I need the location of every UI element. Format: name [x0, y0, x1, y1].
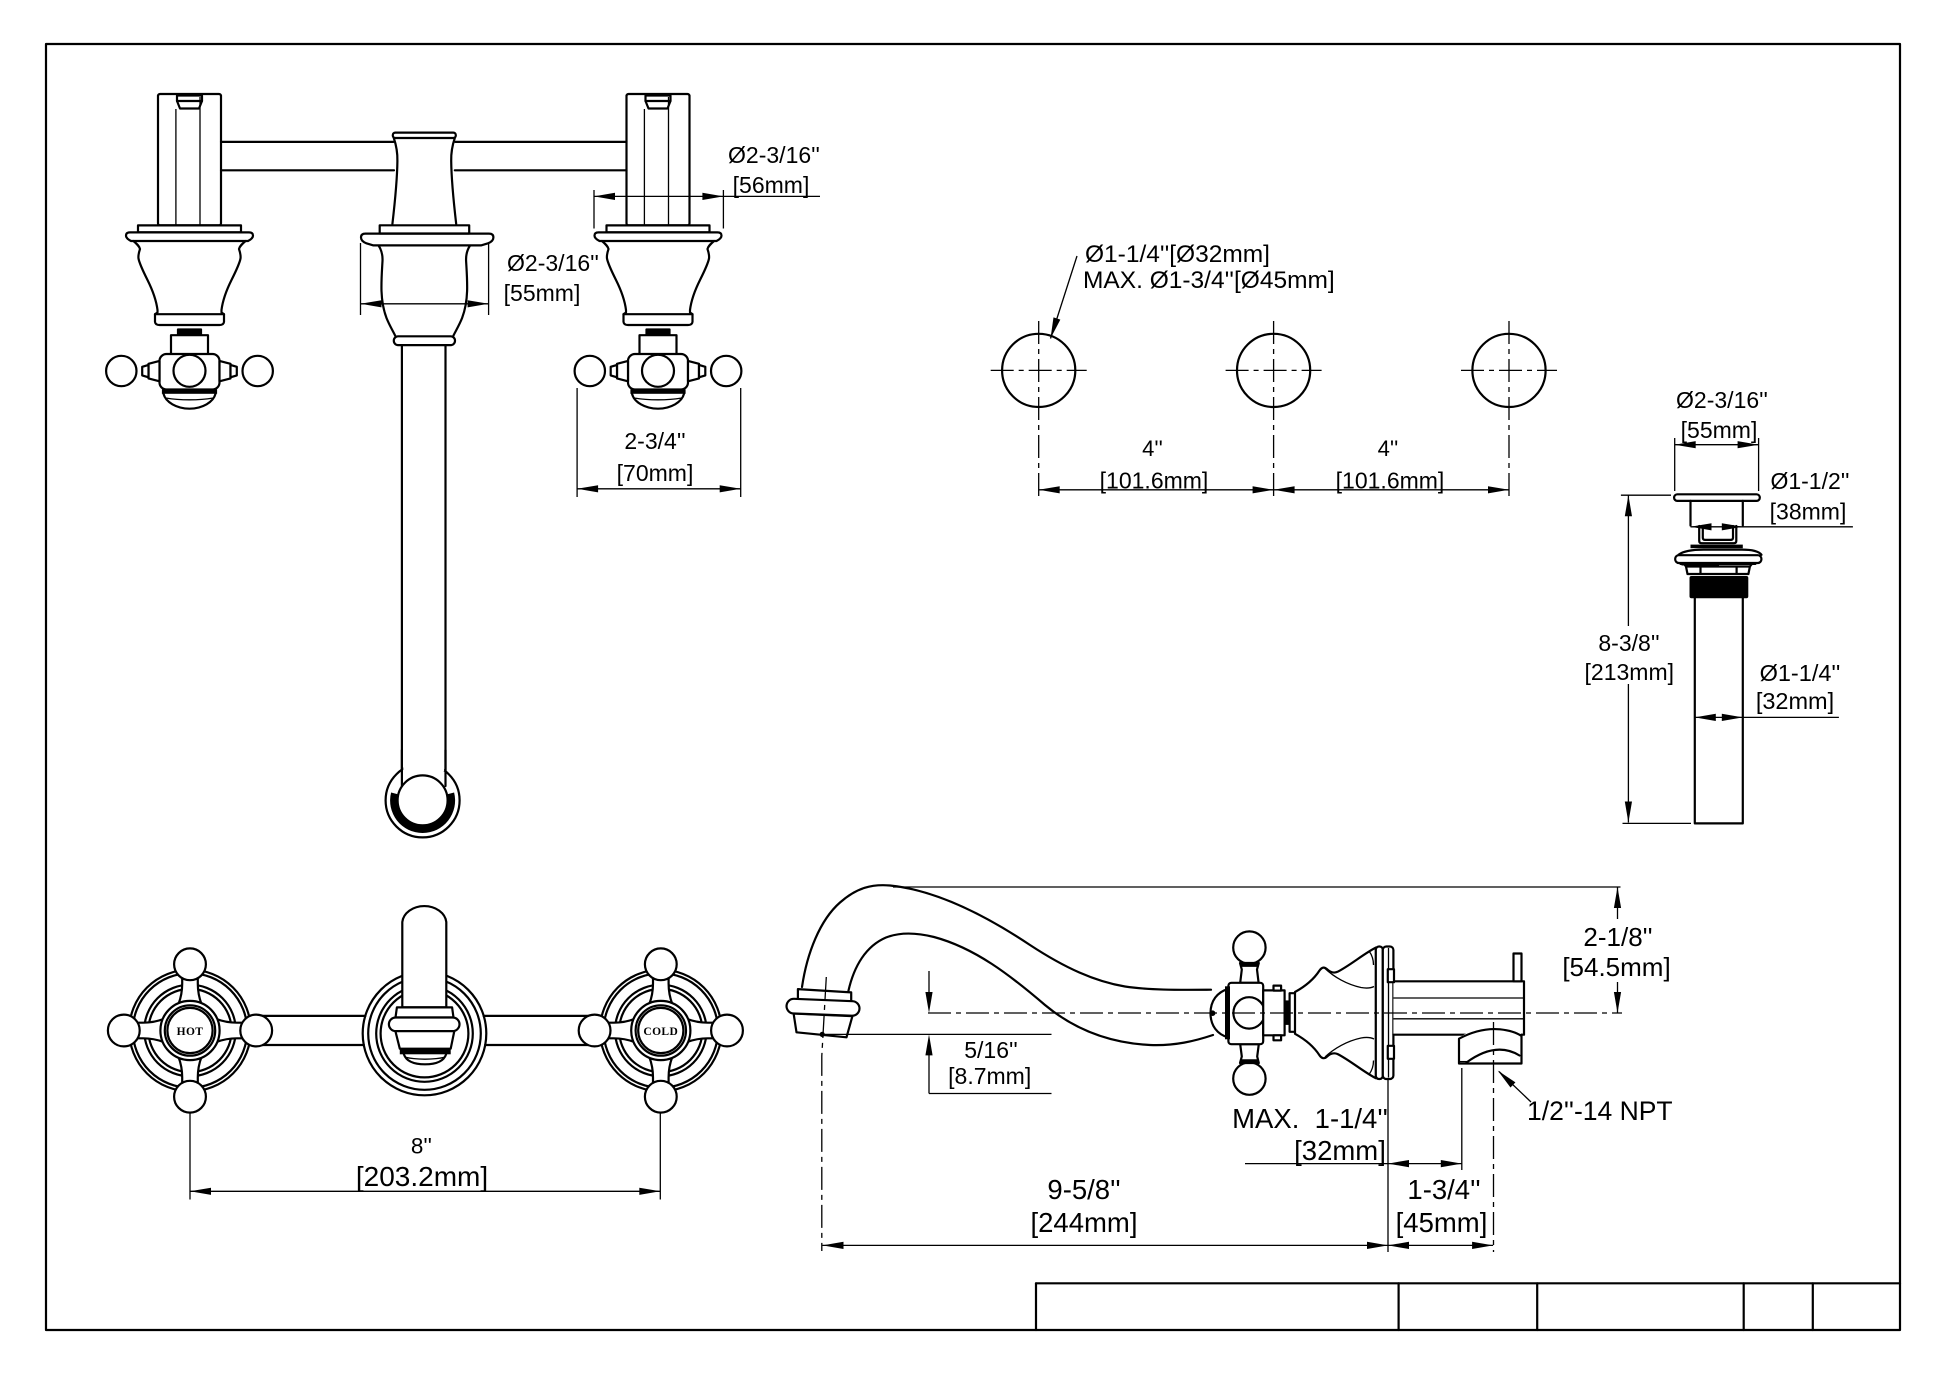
cold valve (top view) handle hub: [628, 354, 688, 390]
hot valve (top view) handle skirt band: [162, 390, 217, 394]
hot handle (front view) handle right ball: [240, 1015, 272, 1047]
svg-text:[55mm]: [55mm]: [504, 280, 581, 306]
hole diameter leader: [1051, 256, 1078, 339]
cold valve (top view) handle skirt dome: [632, 394, 684, 409]
side nipple: [1393, 981, 1524, 1034]
side handle hub dome: [1211, 989, 1229, 1038]
svg-text:Ø2-3/16'': Ø2-3/16'': [1676, 387, 1768, 413]
hot valve (top view) handle left arm: [149, 361, 160, 381]
hot valve (top view) packing nut: [177, 328, 202, 335]
drain neck: [1691, 501, 1743, 526]
svg-text:2-1/8'': 2-1/8'': [1583, 922, 1652, 952]
mounting hole 3: [1472, 334, 1545, 407]
spout column body: [392, 138, 456, 224]
side wall plate: [1383, 947, 1394, 1080]
cold valve (top view) handle left arm: [617, 361, 628, 381]
side bonnet bell: [1295, 948, 1376, 1079]
spout escutcheon flange: [361, 234, 493, 246]
hot valve (top view) handle left ball: [106, 356, 136, 386]
hot handle (front view) handle bottom spoke: [179, 1057, 202, 1084]
side bonnet collar: [1290, 993, 1296, 1032]
side drop ell: [1459, 1028, 1522, 1063]
svg-text:[55mm]: [55mm]: [1681, 417, 1758, 443]
svg-text:4'': 4'': [1142, 436, 1163, 461]
drain thread section: [1690, 576, 1749, 598]
svg-text:[32mm]: [32mm]: [1756, 688, 1834, 714]
hot valve (top view) handle right ball: [243, 356, 273, 386]
side spout tip cone: [794, 1014, 853, 1038]
hot valve (top view) handle right arm: [220, 361, 231, 381]
mounting hole 2: [1237, 334, 1310, 407]
spout base plate: [380, 225, 470, 233]
svg-text:2-3/4'': 2-3/4'': [624, 428, 685, 454]
hot handle (front view) handle left spoke: [137, 1019, 164, 1042]
svg-text:1/2''-14 NPT: 1/2''-14 NPT: [1527, 1096, 1673, 1126]
cold valve (top view) handle left ball: [575, 356, 605, 386]
side handle adapter band: [1285, 1000, 1290, 1025]
side plate tabs: [1388, 969, 1394, 982]
svg-text:Ø1-1/4''[Ø32mm]: Ø1-1/4''[Ø32mm]: [1085, 241, 1270, 268]
spout bell housing: [379, 246, 470, 337]
side handle stem: [1263, 990, 1284, 1035]
svg-text:[45mm]: [45mm]: [1396, 1207, 1488, 1238]
hot handle (front view) handle top ball: [174, 948, 206, 980]
spout outlet seal ring: [390, 793, 455, 833]
drain slot shadow band: [1691, 545, 1743, 549]
front spout nozzle cone: [395, 1031, 454, 1049]
side spout mouth dot: [820, 1032, 825, 1037]
svg-text:[56mm]: [56mm]: [733, 172, 810, 198]
spout down tube: [402, 345, 446, 770]
dimension 5/16in lines: [928, 971, 930, 992]
NPT leader line: [1499, 1072, 1531, 1103]
dimension 2-3/4in 70mm lines: [577, 488, 741, 490]
side spout upper curve: [802, 885, 1211, 990]
cold handle (front view) handle bottom spoke: [649, 1057, 672, 1084]
side handle hub tick: [1210, 1010, 1216, 1016]
drain dim 213mm lines: [1627, 495, 1629, 626]
cold valve (top view) cartridge body: [627, 94, 690, 225]
svg-text:COLD: COLD: [643, 1026, 678, 1038]
hot valve (top view) handle front ball: [174, 355, 206, 387]
cold handle (front view) handle top ball: [645, 948, 677, 980]
svg-text:Ø1-1/4'': Ø1-1/4'': [1760, 660, 1841, 686]
cold valve (top view) handle skirt band: [630, 390, 685, 394]
svg-text:[70mm]: [70mm]: [617, 460, 694, 486]
cold handle (front view) handle left spoke: [608, 1019, 635, 1042]
hot valve (top view) cartridge body: [158, 94, 221, 225]
front spout tube: [402, 906, 446, 1007]
svg-text:8'': 8'': [411, 1134, 432, 1159]
hot valve (top view) bell housing: [134, 241, 246, 325]
dimension 2-3/16in 56mm lines: [594, 195, 820, 197]
side bonnet petal lines: [1325, 969, 1374, 989]
front spout nozzle band: [400, 1049, 451, 1055]
front spout collar ring: [389, 1018, 460, 1032]
cold handle (front view) skirt rings: [615, 985, 707, 1077]
drain plug cap: [1679, 550, 1762, 555]
svg-text:Ø2-3/16'': Ø2-3/16'': [728, 142, 820, 168]
side handle hub: [1228, 983, 1263, 1044]
cold valve (top view) escutcheon flange: [595, 232, 722, 241]
front spout collar: [396, 1007, 454, 1017]
spout bell foot ring: [394, 336, 455, 345]
svg-text:5/16'': 5/16'': [964, 1037, 1018, 1063]
svg-text:Ø1-1/2'': Ø1-1/2'': [1770, 468, 1849, 494]
hot valve (top view) handle stem: [171, 335, 208, 354]
svg-text:Ø2-3/16'': Ø2-3/16'': [507, 250, 599, 276]
svg-text:[54.5mm]: [54.5mm]: [1562, 952, 1670, 982]
side handle bottom ball: [1233, 1062, 1265, 1094]
front view connecting bar: [249, 1016, 602, 1045]
drain dim 32mm lines: [1695, 716, 1839, 718]
hot handle (front view) escutcheon outer rings: [129, 970, 251, 1092]
cold handle (front view) handle left ball: [579, 1015, 611, 1047]
cold valve (top view) handle stem: [640, 335, 677, 354]
cold valve (top view) handle right ball: [711, 356, 741, 386]
hot valve (top view) handle hub: [160, 354, 220, 390]
drain lock ring: [1681, 564, 1756, 574]
mounting hole 2 centerlines: [1226, 369, 1322, 371]
cold valve (top view) bell housing: [602, 241, 714, 325]
svg-text:[203.2mm]: [203.2mm]: [356, 1161, 488, 1192]
side spout tip stub: [798, 989, 852, 1003]
drain overflow slot: [1699, 526, 1736, 543]
side handle top neck: [1240, 963, 1259, 983]
spout manifold bar: [221, 142, 627, 170]
side handle hub band: [1225, 986, 1230, 1039]
drain tailpipe: [1695, 598, 1743, 824]
svg-text:MAX. Ø1-3/4''[Ø45mm]: MAX. Ø1-3/4''[Ø45mm]: [1083, 267, 1335, 294]
svg-text:[8.7mm]: [8.7mm]: [948, 1063, 1031, 1089]
svg-text:[32mm]: [32mm]: [1294, 1135, 1386, 1166]
mounting hole 1 centerlines: [991, 369, 1087, 371]
svg-text:1-3/4'': 1-3/4'': [1407, 1174, 1480, 1205]
side handle bottom neck: [1240, 1044, 1259, 1063]
spout outlet outer rim: [386, 763, 460, 837]
spout outlet inner rim: [398, 775, 448, 825]
hot valve (top view) handle skirt dome: [164, 394, 216, 409]
cold handle (front view) handle top spoke: [649, 978, 672, 1005]
side handle top ball: [1233, 931, 1265, 963]
drain dim 55mm lines: [1675, 444, 1759, 446]
hot handle (front view) handle bottom ball: [174, 1081, 206, 1113]
svg-text:4'': 4'': [1378, 436, 1399, 461]
side nipple bracket: [1514, 954, 1522, 982]
drain flange band: [1675, 555, 1761, 563]
cold valve (top view) packing nut: [645, 328, 670, 335]
hot handle (front view) handle boss rings: [160, 1001, 219, 1060]
title block: [1036, 1283, 1900, 1330]
svg-text:9-5/8'': 9-5/8'': [1047, 1174, 1120, 1205]
svg-text:MAX. 1-1/4'': MAX. 1-1/4'': [1232, 1103, 1388, 1134]
side assembly centerline: [928, 1012, 1622, 1014]
svg-text:HOT: HOT: [177, 1026, 204, 1038]
svg-text:[213mm]: [213mm]: [1585, 659, 1674, 685]
cold handle (front view) handle right ball: [711, 1015, 743, 1047]
spout column cap: [393, 133, 456, 138]
dimension 2-3/16in 55mm lines: [361, 303, 489, 305]
svg-text:[244mm]: [244mm]: [1031, 1207, 1138, 1238]
side spout tip collar: [786, 999, 860, 1017]
front spout escutcheon rings: [363, 972, 487, 1096]
dimension 8in lines: [189, 1112, 191, 1200]
hot handle (front view) handle right spoke: [217, 1019, 244, 1042]
hot valve (top view) bell foot line: [155, 313, 224, 315]
cold handle (front view) handle right spoke: [687, 1019, 714, 1042]
side spout lower curve: [848, 934, 1213, 1046]
cold handle (front view) escutcheon outer rings: [600, 970, 722, 1092]
cold handle (front view) handle boss rings: [631, 1001, 690, 1060]
hot valve (top view) base plate: [138, 225, 241, 232]
cold valve (top view) handle front ball: [642, 355, 674, 387]
hot handle (front view) skirt rings: [144, 985, 236, 1077]
side bonnet rim: [1376, 947, 1383, 1080]
cold valve (top view) handle right arm: [688, 361, 699, 381]
side handle front ball: [1233, 997, 1264, 1028]
hot handle (front view) handle left ball: [108, 1015, 140, 1047]
dimension MAX 32mm lines: [1245, 1163, 1462, 1165]
dimension 4in 101.6mm lines: [1039, 489, 1509, 491]
cold handle (front view) handle bottom ball: [645, 1081, 677, 1113]
mounting hole 1: [1002, 334, 1075, 407]
dimension 2-1/8in lines: [893, 886, 1621, 888]
hot valve (top view) escutcheon flange: [126, 232, 253, 241]
side spout tip centerline: [822, 977, 827, 1251]
front spout nozzle dome: [404, 1054, 446, 1064]
cold valve (top view) bell foot line: [624, 313, 693, 315]
mounting hole 3 centerlines: [1461, 369, 1557, 371]
svg-text:8-3/8'': 8-3/8'': [1598, 630, 1659, 656]
dimension 9-5/8 and 1-3/4 lines: [823, 1244, 1494, 1246]
drain top flange: [1674, 494, 1760, 501]
drain dim 38mm leader: [1691, 526, 1853, 528]
svg-text:[38mm]: [38mm]: [1770, 499, 1847, 525]
cold valve (top view) base plate: [607, 225, 710, 232]
hot handle (front view) handle top spoke: [179, 978, 202, 1005]
side ell centerline: [1493, 1022, 1495, 1252]
